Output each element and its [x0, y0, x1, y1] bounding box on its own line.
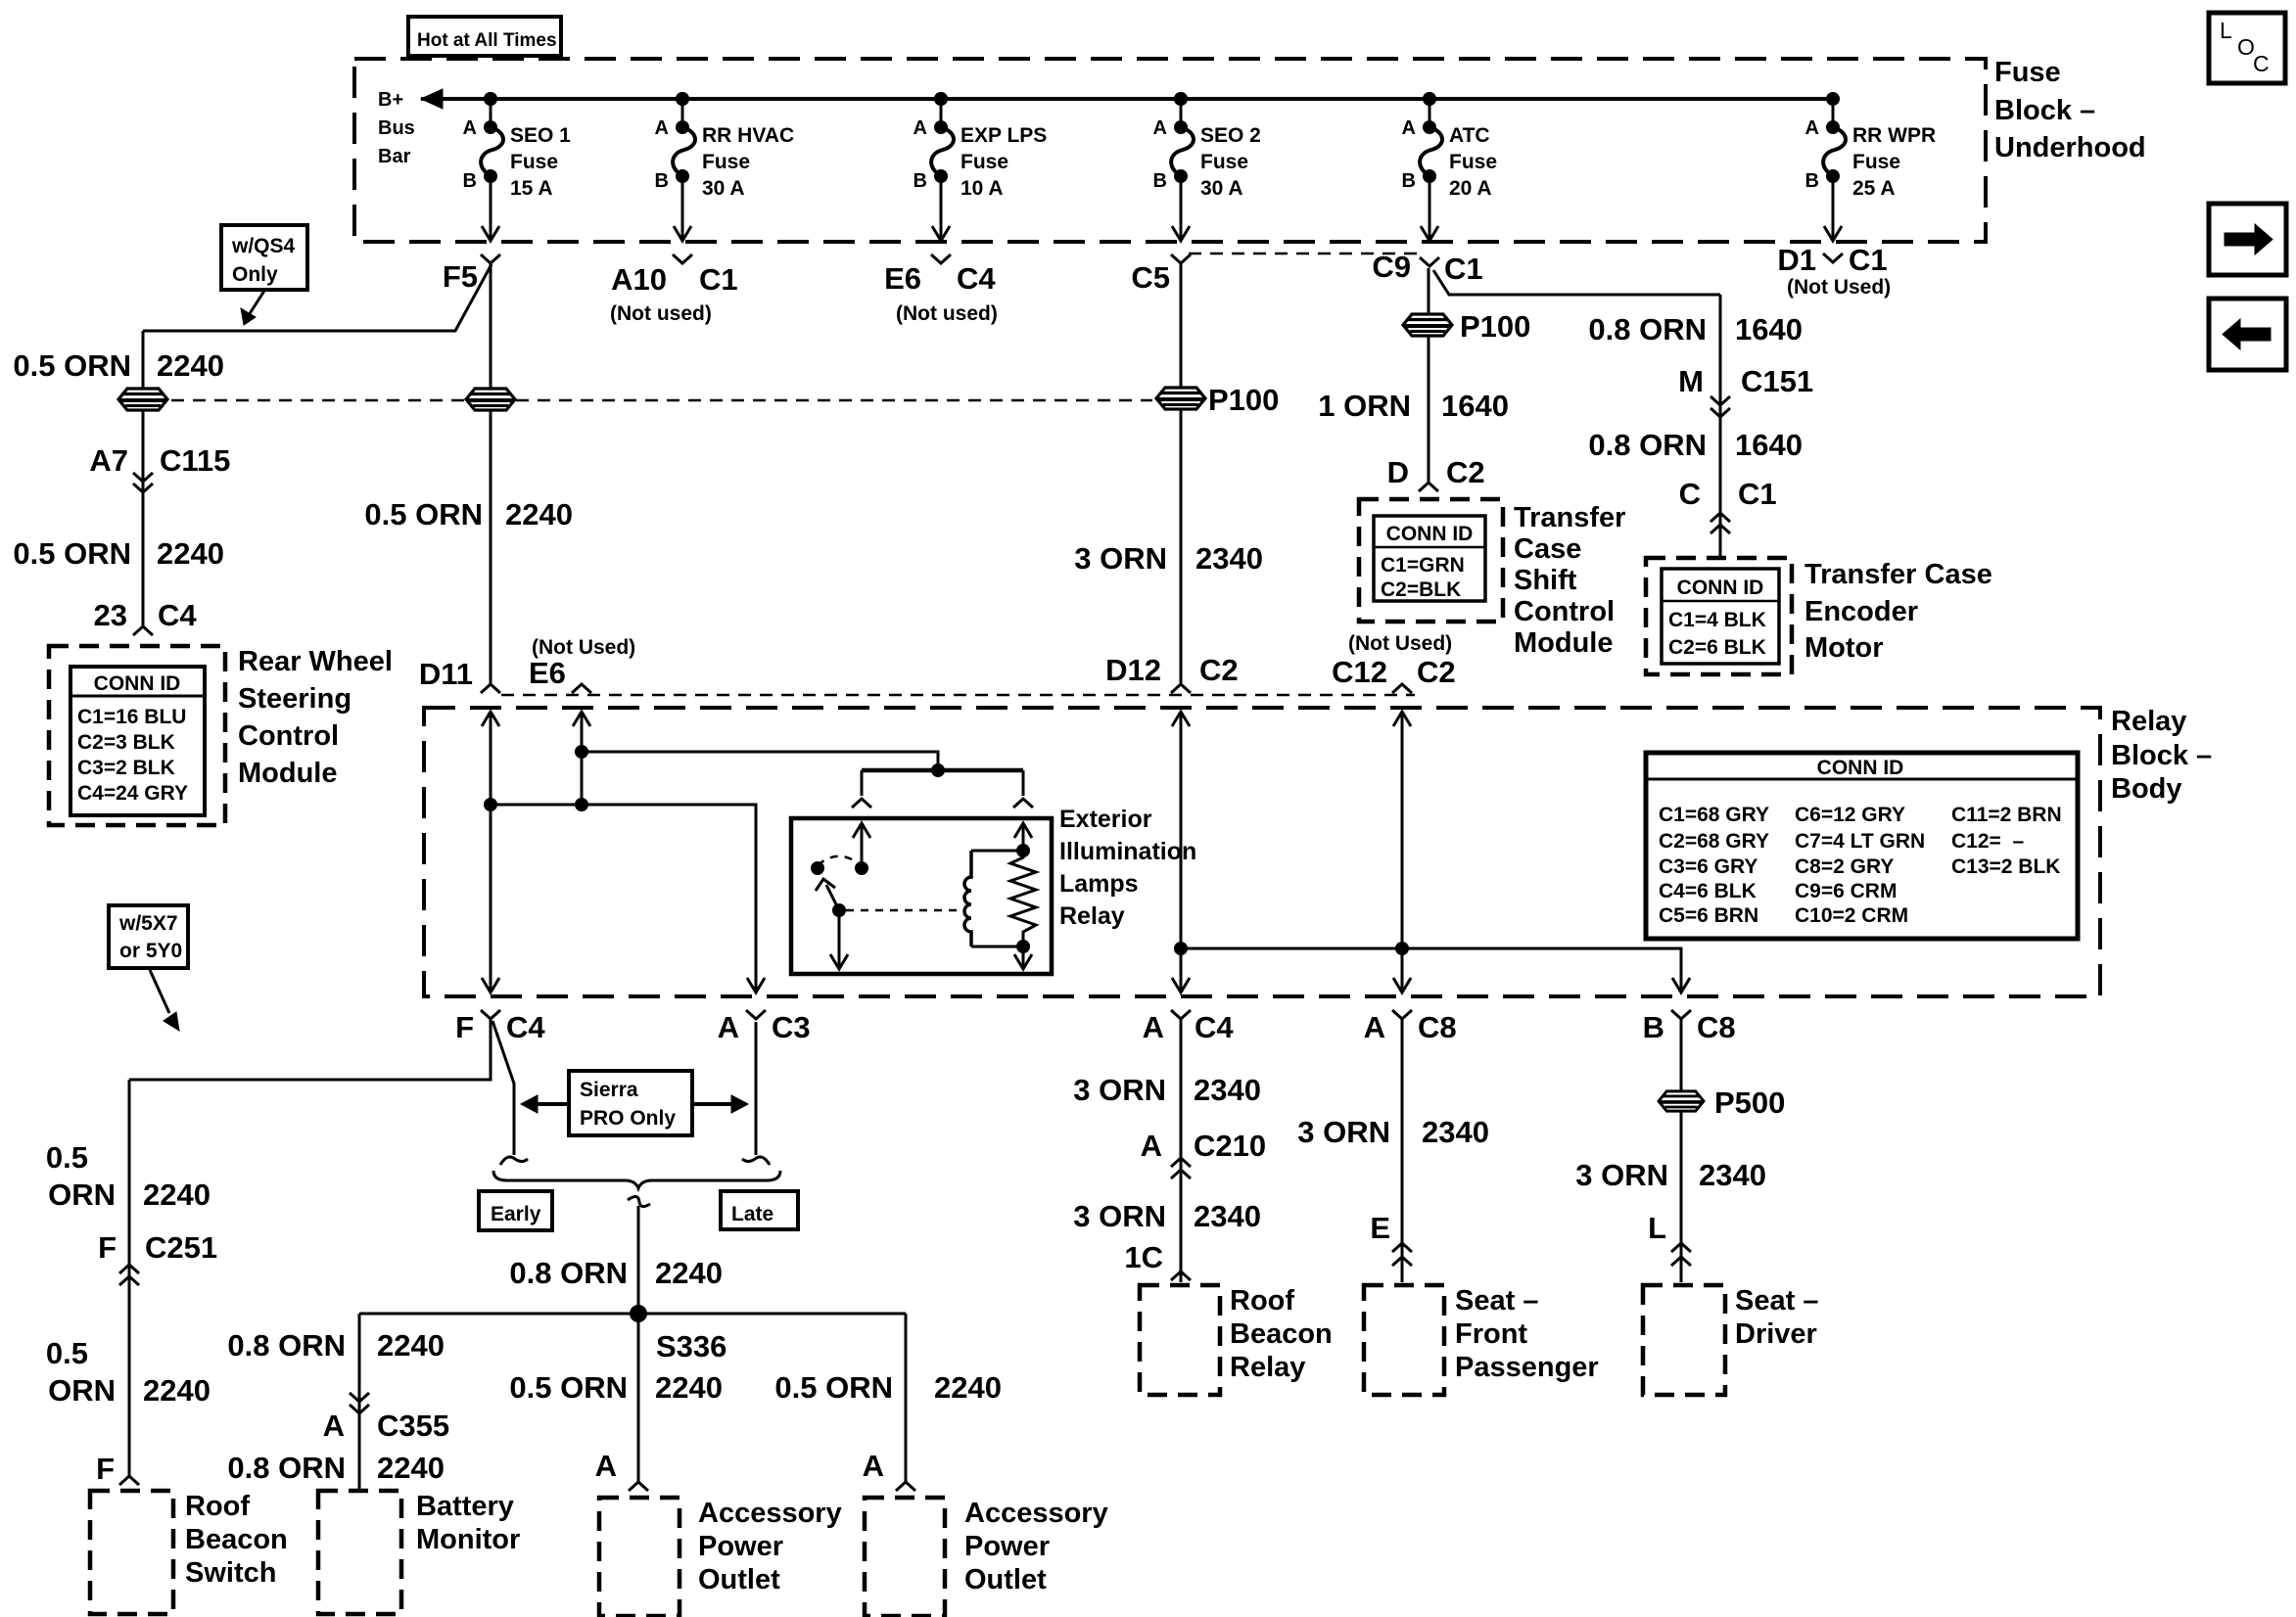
- svg-text:or 5Y0: or 5Y0: [119, 940, 182, 962]
- svg-text:15 A: 15 A: [510, 177, 553, 200]
- svg-text:C4: C4: [1195, 1010, 1234, 1044]
- fuse RR WPR 25A: [1805, 92, 1937, 241]
- svg-text:B+: B+: [378, 89, 403, 111]
- svg-text:0.5: 0.5: [46, 1336, 88, 1370]
- svg-text:2340: 2340: [1195, 541, 1263, 576]
- svg-text:P100: P100: [1208, 383, 1279, 417]
- grommet on F5 wire: [466, 389, 515, 410]
- svg-text:E6: E6: [884, 261, 921, 296]
- svg-text:Hot at All Times: Hot at All Times: [417, 30, 557, 51]
- relay coil: [964, 851, 971, 947]
- svg-text:10 A: 10 A: [961, 177, 1004, 200]
- svg-text:2240: 2240: [505, 497, 573, 531]
- svg-text:Front: Front: [1455, 1318, 1527, 1350]
- svg-text:C2=68 GRY: C2=68 GRY: [1659, 830, 1769, 853]
- connector B C8: [1671, 1010, 1691, 1019]
- wire to roof beacon switch: [128, 1080, 131, 1477]
- svg-text:3 ORN: 3 ORN: [1073, 1073, 1166, 1107]
- CONN ID table relay block: [1646, 753, 2078, 939]
- wire C9 diagonal branch to right: [1433, 270, 1720, 295]
- svg-text:30 A: 30 A: [1200, 177, 1243, 200]
- svg-text:Control: Control: [1514, 596, 1615, 627]
- svg-text:0.8 ORN: 0.8 ORN: [1588, 312, 1707, 346]
- svg-text:C151: C151: [1741, 364, 1813, 398]
- svg-text:C8: C8: [1697, 1010, 1736, 1044]
- svg-text:C2: C2: [1446, 455, 1485, 489]
- svg-text:B: B: [655, 170, 669, 192]
- svg-text:Seat –: Seat –: [1735, 1285, 1818, 1317]
- svg-text:2240: 2240: [143, 1178, 211, 1212]
- svg-text:Fuse: Fuse: [961, 151, 1008, 173]
- svg-text:C115: C115: [160, 443, 230, 478]
- wire left vertical to A7 C115: [142, 331, 145, 627]
- svg-text:ATC: ATC: [1449, 124, 1490, 147]
- svg-text:L: L: [2220, 18, 2232, 43]
- svg-text:C4: C4: [158, 598, 197, 632]
- svg-text:2340: 2340: [1194, 1073, 1261, 1107]
- svg-text:B: B: [1153, 170, 1167, 192]
- svg-text:C4=24 GRY: C4=24 GRY: [77, 782, 188, 805]
- svg-text:D1: D1: [1777, 243, 1816, 277]
- svg-text:A: A: [1364, 1010, 1385, 1044]
- svg-text:(Not used): (Not used): [610, 302, 712, 325]
- connector A C3: [746, 1010, 766, 1019]
- wire 0.8 ORN 2240 to S336: [637, 1206, 640, 1314]
- wire to battery monitor: [358, 1314, 361, 1491]
- svg-text:Case: Case: [1514, 533, 1581, 565]
- node S336 splice: [630, 1305, 647, 1322]
- wire D12 inside relay block: [1172, 712, 1190, 726]
- svg-text:Fuse: Fuse: [1200, 151, 1248, 173]
- svg-text:(Not Used): (Not Used): [532, 636, 635, 659]
- svg-text:C8=2 GRY: C8=2 GRY: [1795, 855, 1894, 878]
- svg-text:C3=6 GRY: C3=6 GRY: [1659, 855, 1757, 878]
- connector A C8: [1392, 1010, 1412, 1019]
- grommet P100 on ATC wire: [1403, 314, 1452, 336]
- svg-text:2340: 2340: [1699, 1158, 1766, 1192]
- svg-text:L: L: [1648, 1211, 1666, 1245]
- svg-text:0.5 ORN: 0.5 ORN: [364, 497, 483, 531]
- svg-text:30 A: 30 A: [702, 177, 745, 200]
- svg-text:C1=16 BLU: C1=16 BLU: [77, 706, 186, 728]
- svg-text:Outlet: Outlet: [964, 1564, 1047, 1595]
- svg-text:C1=GRN: C1=GRN: [1381, 554, 1465, 577]
- svg-text:A: A: [1805, 117, 1819, 139]
- svg-text:C1: C1: [1444, 252, 1483, 286]
- svg-text:EXP LPS: EXP LPS: [961, 124, 1047, 147]
- svg-text:1640: 1640: [1735, 428, 1803, 462]
- svg-text:B: B: [463, 170, 477, 192]
- wire D11 junction to A C3: [491, 805, 756, 993]
- connector A C4: [1171, 1010, 1191, 1019]
- module Transfer Case Shift Control Module dashed box: [1359, 499, 1503, 622]
- grommet P500: [1659, 1091, 1704, 1111]
- svg-text:C10=2 CRM: C10=2 CRM: [1795, 904, 1908, 927]
- svg-text:Outlet: Outlet: [698, 1564, 780, 1595]
- svg-text:Monitor: Monitor: [416, 1524, 520, 1555]
- svg-text:Transfer: Transfer: [1514, 502, 1625, 533]
- svg-text:C1: C1: [1849, 243, 1888, 277]
- svg-text:M: M: [1678, 364, 1704, 398]
- svg-text:Relay: Relay: [1059, 902, 1125, 930]
- svg-text:C1=68 GRY: C1=68 GRY: [1659, 804, 1769, 826]
- svg-text:0.5 ORN: 0.5 ORN: [13, 348, 131, 383]
- svg-text:Block –: Block –: [1994, 95, 2095, 126]
- CONN ID table shift module: [1374, 516, 1485, 601]
- svg-text:C13=2 BLK: C13=2 BLK: [1951, 855, 2060, 878]
- module Seat Driver dashed box: [1643, 1285, 1725, 1395]
- svg-text:C4: C4: [506, 1010, 545, 1044]
- svg-text:C1: C1: [1738, 477, 1777, 511]
- page arrow right box: [2209, 204, 2286, 275]
- module Accessory Power Outlet 2 dashed box: [865, 1498, 945, 1616]
- svg-text:ORN: ORN: [48, 1178, 116, 1212]
- svg-text:Passenger: Passenger: [1455, 1352, 1599, 1383]
- wire C9 down through P100: [1428, 268, 1430, 482]
- svg-text:A: A: [1153, 117, 1167, 139]
- fuse SEO 1 15A: [463, 92, 572, 241]
- module Rear Wheel Steering Control Module dashed box: [49, 646, 225, 825]
- svg-text:Body: Body: [2111, 773, 2182, 805]
- fuse EXP LPS 10A: [914, 92, 1048, 241]
- svg-text:C1: C1: [699, 262, 738, 297]
- CONN ID table encoder motor: [1662, 569, 1779, 664]
- svg-text:C2=BLK: C2=BLK: [1381, 578, 1461, 601]
- label box Early: [479, 1191, 552, 1230]
- connector D1 C1 (Not Used): [1823, 254, 1843, 262]
- hook early wire: [500, 1157, 528, 1165]
- svg-text:A: A: [1402, 117, 1416, 139]
- svg-text:E6: E6: [529, 656, 566, 690]
- hook late wire: [742, 1157, 770, 1165]
- svg-text:ORN: ORN: [48, 1373, 116, 1408]
- connector F C4: [481, 1010, 500, 1019]
- svg-text:F: F: [455, 1010, 474, 1044]
- module Battery Monitor dashed box: [318, 1491, 401, 1614]
- svg-text:Shift: Shift: [1514, 565, 1577, 596]
- connector C5: [1171, 254, 1191, 263]
- module Roof Beacon Relay dashed box: [1140, 1285, 1220, 1395]
- svg-text:A: A: [323, 1409, 345, 1443]
- svg-text:2240: 2240: [157, 536, 224, 571]
- connector C9 C1: [1420, 257, 1439, 266]
- svg-text:P100: P100: [1460, 309, 1530, 344]
- arrow from w/5X7 box: [150, 970, 169, 1013]
- connector E6 C4 (Not used): [931, 254, 951, 263]
- svg-text:D11: D11: [419, 657, 473, 691]
- wire E6 to relay coil feed: [582, 752, 938, 770]
- svg-text:3 ORN: 3 ORN: [1297, 1115, 1390, 1149]
- svg-text:C: C: [2253, 51, 2270, 76]
- svg-text:Beacon: Beacon: [1230, 1318, 1333, 1350]
- fuse RR HVAC 30A: [655, 92, 795, 241]
- wire B C8 to seat driver: [1680, 1019, 1683, 1282]
- svg-text:B: B: [1643, 1010, 1664, 1044]
- svg-text:2240: 2240: [655, 1370, 723, 1405]
- arrow from w/QS4 box: [249, 291, 264, 315]
- label box LOC: [2209, 13, 2285, 83]
- svg-text:0.5 ORN: 0.5 ORN: [774, 1370, 893, 1405]
- svg-text:B: B: [914, 170, 927, 192]
- svg-text:Control: Control: [238, 720, 339, 752]
- svg-text:A: A: [595, 1449, 617, 1483]
- connector A10 C1 (Not used): [673, 254, 692, 263]
- svg-text:(Not used): (Not used): [896, 302, 998, 325]
- fuse block underhood dashed box: [354, 59, 1986, 242]
- relay pin 85 arrow: [1022, 947, 1025, 967]
- svg-text:2240: 2240: [377, 1328, 445, 1363]
- svg-text:0.5: 0.5: [46, 1140, 88, 1175]
- svg-text:Early: Early: [491, 1203, 541, 1225]
- svg-text:Encoder: Encoder: [1804, 596, 1918, 627]
- module Seat Front Passenger dashed box: [1364, 1285, 1444, 1395]
- module Roof Beacon Switch dashed box: [90, 1491, 173, 1614]
- svg-text:SEO 2: SEO 2: [1200, 124, 1261, 147]
- svg-text:RR HVAC: RR HVAC: [702, 124, 794, 147]
- wire D11 inside relay block: [482, 712, 499, 726]
- wire B+ bus bar with left arrow: [421, 97, 1833, 101]
- svg-text:Seat –: Seat –: [1455, 1285, 1538, 1317]
- wire 0.5 ORN 2240 from F5 to D11: [490, 263, 492, 685]
- svg-text:C7=4 LT GRN: C7=4 LT GRN: [1795, 830, 1925, 853]
- CONN ID table rear wheel: [70, 667, 205, 815]
- svg-text:2240: 2240: [143, 1373, 211, 1408]
- svg-text:RR WPR: RR WPR: [1852, 124, 1936, 147]
- svg-text:Illumination: Illumination: [1059, 838, 1196, 865]
- svg-text:C11=2 BRN: C11=2 BRN: [1951, 804, 2062, 826]
- svg-text:C251: C251: [145, 1230, 217, 1265]
- wire relay pin bracket: [862, 768, 1023, 773]
- connector F5: [481, 254, 500, 263]
- svg-text:0.8 ORN: 0.8 ORN: [227, 1451, 346, 1485]
- svg-text:Beacon: Beacon: [185, 1524, 288, 1555]
- svg-text:F5: F5: [443, 259, 478, 294]
- svg-text:Roof: Roof: [185, 1491, 250, 1522]
- svg-text:P500: P500: [1714, 1086, 1785, 1120]
- svg-text:Roof: Roof: [1230, 1285, 1294, 1317]
- svg-text:Relay: Relay: [1230, 1352, 1305, 1383]
- svg-text:CONN ID: CONN ID: [1817, 757, 1904, 779]
- svg-text:Lamps: Lamps: [1059, 870, 1139, 898]
- wire junction row to B C8: [1181, 948, 1681, 993]
- svg-text:A: A: [1141, 1129, 1162, 1163]
- svg-text:C2=6 BLK: C2=6 BLK: [1668, 636, 1766, 659]
- svg-text:C2: C2: [1417, 655, 1456, 689]
- module Transfer Case Encoder Motor dashed box: [1646, 558, 1792, 674]
- svg-text:Power: Power: [698, 1531, 783, 1562]
- svg-text:Bar: Bar: [378, 146, 411, 167]
- svg-text:A10: A10: [611, 262, 667, 297]
- relay Exterior Illumination Lamps Relay box: [791, 818, 1052, 974]
- relay switch dashed link: [846, 909, 962, 912]
- svg-text:A: A: [863, 1449, 884, 1483]
- svg-text:2240: 2240: [934, 1370, 1002, 1405]
- svg-text:0.8 ORN: 0.8 ORN: [509, 1256, 628, 1290]
- arrow Sierra left: [534, 1102, 569, 1106]
- svg-text:C12: C12: [1332, 655, 1387, 689]
- svg-text:Relay: Relay: [2111, 706, 2186, 737]
- svg-text:0.5 ORN: 0.5 ORN: [13, 536, 131, 571]
- wire E6 stub inside relay block: [573, 712, 590, 726]
- svg-text:0.8 ORN: 0.8 ORN: [1588, 428, 1707, 462]
- svg-text:w/QS4: w/QS4: [231, 235, 296, 257]
- svg-text:C355: C355: [377, 1409, 449, 1443]
- dashed connector line across relay block top: [501, 694, 1415, 697]
- svg-text:A: A: [1143, 1010, 1164, 1044]
- fuse ATC 20A: [1402, 92, 1497, 241]
- svg-text:2240: 2240: [377, 1451, 445, 1485]
- svg-text:SEO 1: SEO 1: [510, 124, 571, 147]
- svg-text:C6=12 GRY: C6=12 GRY: [1795, 804, 1905, 826]
- svg-text:Exterior: Exterior: [1059, 806, 1152, 833]
- svg-text:C9=6 CRM: C9=6 CRM: [1795, 880, 1897, 902]
- svg-text:Module: Module: [1514, 627, 1614, 659]
- wire S336 horizontal: [359, 1313, 906, 1316]
- relay switch: [811, 861, 824, 875]
- svg-text:A: A: [718, 1010, 739, 1044]
- svg-text:0.8 ORN: 0.8 ORN: [227, 1328, 346, 1363]
- svg-text:3 ORN: 3 ORN: [1073, 1199, 1166, 1233]
- grommet P100 on SEO2 wire: [1156, 388, 1205, 409]
- svg-text:A: A: [463, 117, 477, 139]
- svg-text:Power: Power: [964, 1531, 1050, 1562]
- svg-text:C3=2 BLK: C3=2 BLK: [77, 757, 175, 779]
- svg-text:Battery: Battery: [416, 1491, 514, 1522]
- svg-text:Bus: Bus: [378, 117, 415, 139]
- wire 3 ORN 2340 from C5 to D12: [1180, 263, 1183, 685]
- svg-text:1 ORN: 1 ORN: [1318, 389, 1411, 423]
- relay block body dashed box: [424, 708, 2100, 996]
- svg-text:C: C: [1679, 477, 1701, 511]
- svg-text:1640: 1640: [1441, 389, 1509, 423]
- wire early variant diagonal: [492, 1021, 514, 1155]
- svg-text:C5: C5: [1131, 260, 1170, 295]
- wire F C4 down to w5X7 branch: [129, 1019, 491, 1080]
- fuse SEO 2 30A: [1153, 92, 1261, 241]
- svg-text:Fuse: Fuse: [702, 151, 750, 173]
- svg-text:CONN ID: CONN ID: [1386, 523, 1474, 545]
- svg-text:C8: C8: [1418, 1010, 1457, 1044]
- relay pin 86 arrow: [1022, 825, 1025, 848]
- svg-text:Sierra: Sierra: [580, 1079, 638, 1101]
- wire A C8 to seat front passenger: [1401, 1019, 1404, 1282]
- svg-text:Motor: Motor: [1804, 632, 1884, 664]
- svg-text:3 ORN: 3 ORN: [1575, 1158, 1668, 1192]
- svg-text:Fuse: Fuse: [1449, 151, 1497, 173]
- svg-text:w/5X7: w/5X7: [118, 912, 178, 935]
- label box Sierra PRO Only: [569, 1071, 692, 1135]
- page arrow left box: [2209, 299, 2286, 370]
- svg-text:CONN ID: CONN ID: [1677, 577, 1764, 599]
- svg-text:2240: 2240: [655, 1256, 723, 1290]
- wire A C4 to roof beacon relay: [1180, 1019, 1183, 1282]
- svg-text:0.5 ORN: 0.5 ORN: [509, 1370, 628, 1405]
- svg-text:A7: A7: [89, 443, 128, 478]
- svg-text:C1=4 BLK: C1=4 BLK: [1668, 609, 1766, 631]
- svg-text:2340: 2340: [1422, 1115, 1489, 1149]
- label box w/5X7 or 5Y0: [109, 905, 188, 968]
- dashed grommet line: [171, 399, 1152, 402]
- svg-text:1C: 1C: [1124, 1240, 1163, 1274]
- svg-text:B: B: [1402, 170, 1416, 192]
- svg-text:C210: C210: [1194, 1129, 1266, 1163]
- svg-text:3 ORN: 3 ORN: [1074, 541, 1167, 576]
- connector A C210: [1171, 1158, 1191, 1167]
- svg-text:Driver: Driver: [1735, 1318, 1817, 1350]
- svg-text:1640: 1640: [1735, 312, 1803, 346]
- svg-text:Transfer Case: Transfer Case: [1804, 559, 1992, 590]
- svg-text:CONN ID: CONN ID: [94, 672, 181, 695]
- svg-text:Fuse: Fuse: [1852, 151, 1900, 173]
- module Accessory Power Outlet 1 dashed box: [599, 1498, 679, 1616]
- svg-text:C2: C2: [1199, 653, 1239, 687]
- wire late variant: [755, 1022, 758, 1155]
- svg-text:F: F: [96, 1452, 115, 1486]
- wire to accessory power outlet 2: [905, 1314, 908, 1482]
- svg-text:S336: S336: [656, 1329, 726, 1363]
- wire 0.8 ORN 1640: [1719, 295, 1722, 558]
- dashed connector line C5-C9: [1189, 253, 1420, 255]
- svg-text:C2=3 BLK: C2=3 BLK: [77, 731, 175, 754]
- svg-text:Block –: Block –: [2111, 740, 2212, 771]
- connector D11 E6 (Not Used): [481, 684, 500, 693]
- svg-text:Accessory: Accessory: [698, 1498, 842, 1529]
- svg-text:2340: 2340: [1194, 1199, 1261, 1233]
- svg-text:C3: C3: [772, 1010, 811, 1044]
- hook below brace: [628, 1196, 650, 1206]
- svg-text:F: F: [98, 1230, 117, 1265]
- svg-text:(Not Used): (Not Used): [1787, 276, 1891, 299]
- svg-text:20 A: 20 A: [1449, 177, 1492, 200]
- wire C12 inside relay block: [1393, 712, 1411, 726]
- svg-text:23: 23: [94, 598, 127, 632]
- svg-text:Module: Module: [238, 758, 338, 789]
- connector F C251: [119, 1265, 139, 1273]
- svg-text:C5=6 BRN: C5=6 BRN: [1659, 904, 1758, 927]
- grommet left: [118, 389, 167, 410]
- relay pin 30 arrow: [861, 825, 864, 866]
- svg-text:Accessory: Accessory: [964, 1498, 1108, 1529]
- wire to accessory power outlet 1: [637, 1314, 640, 1482]
- svg-text:Steering: Steering: [238, 683, 351, 715]
- svg-text:C12= –: C12= –: [1951, 830, 2024, 853]
- arrow Sierra right: [692, 1102, 733, 1106]
- svg-text:Underhood: Underhood: [1994, 132, 2146, 163]
- svg-text:C4: C4: [957, 261, 996, 296]
- wire F5 diagonal to horizontal: [143, 264, 492, 331]
- label box w/QS4 Only: [221, 225, 307, 290]
- svg-text:A: A: [914, 117, 927, 139]
- connector A C355: [350, 1393, 369, 1402]
- svg-text:(Not Used): (Not Used): [1348, 632, 1452, 655]
- svg-text:Rear Wheel: Rear Wheel: [238, 646, 393, 677]
- svg-text:2240: 2240: [157, 348, 224, 383]
- svg-text:D12: D12: [1105, 653, 1161, 687]
- svg-text:Fuse: Fuse: [1994, 57, 2061, 88]
- relay coil leads: [971, 850, 1023, 853]
- svg-text:PRO Only: PRO Only: [580, 1107, 676, 1130]
- svg-text:Only: Only: [232, 263, 278, 286]
- connector A7 C115: [133, 473, 153, 482]
- relay resistor: [1010, 851, 1036, 947]
- svg-text:B: B: [1805, 170, 1819, 192]
- brace joining early/late: [493, 1171, 780, 1188]
- svg-text:A: A: [655, 117, 669, 139]
- svg-text:E: E: [1370, 1211, 1390, 1245]
- svg-text:Fuse: Fuse: [510, 151, 558, 173]
- svg-text:25 A: 25 A: [1852, 177, 1896, 200]
- svg-text:Switch: Switch: [185, 1557, 276, 1589]
